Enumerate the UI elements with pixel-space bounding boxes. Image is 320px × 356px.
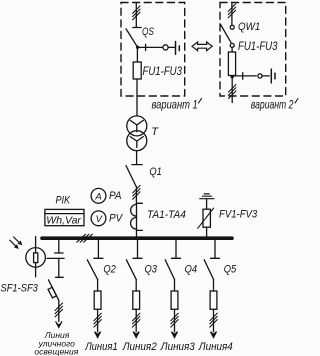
wire: busbar drop to contactor (street lighting) — [58, 240, 60, 253]
ammeter PA — [91, 188, 106, 203]
svg-text:FV1-FV3: FV1-FV3 — [219, 209, 257, 221]
label Линия1 — [84, 341, 117, 353]
voltmeter PV — [91, 211, 106, 226]
fuse FU (line 2) — [133, 291, 140, 309]
label SF1-SF3 — [1, 283, 39, 295]
plug connector X1 (Variant 1) — [163, 42, 179, 55]
label TA1-TA4 — [147, 209, 186, 221]
energy meter Wh,Var — [45, 209, 84, 226]
svg-text:T: T — [151, 126, 159, 138]
wire: Q5 to fuse — [213, 279, 215, 291]
fuse FU (line 4) — [210, 291, 217, 309]
wire: transformer to Q1 — [136, 151, 138, 165]
wire: incoming supply line (Variant 1) — [135, 3, 137, 28]
label Q4 — [185, 264, 198, 276]
label Q2 — [103, 264, 116, 276]
svg-text:TA1-TA4: TA1-TA4 — [147, 209, 186, 221]
wire: Q3 to fuse — [135, 279, 137, 291]
svg-text:Линия1: Линия1 — [84, 341, 117, 353]
feeder line 4 with arrow — [211, 309, 217, 337]
three-phase hatch marks on street lighting feeder — [55, 303, 62, 317]
svg-text:освещения: освещения — [34, 347, 78, 356]
label T — [151, 126, 159, 138]
svg-text:A: A — [94, 191, 101, 202]
busbar 0.4 kV — [42, 236, 232, 240]
svg-text:QS: QS — [142, 26, 154, 38]
svg-text:V: V — [96, 214, 104, 225]
label FV1-FV3 — [219, 209, 257, 221]
svg-text:Линия2: Линия2 — [122, 341, 157, 353]
svg-text:Линия4: Линия4 — [198, 341, 233, 353]
label FU1-FU3 (Variant 1) — [143, 65, 182, 78]
label: вариант 1 — [152, 98, 202, 111]
label Линия2 — [122, 341, 157, 353]
surge arrester FV1-FV3 — [198, 199, 214, 237]
wire: junction to plug connector (Variant 1) — [138, 44, 175, 50]
label Линия3 — [160, 341, 195, 353]
three-phase hatch marks on feeder 3 — [171, 313, 178, 327]
three-phase hatch marks on busbar — [77, 234, 93, 242]
label QS — [142, 26, 154, 38]
svg-text:Wh,Var: Wh,Var — [46, 215, 81, 227]
label Линия4 — [198, 341, 233, 353]
ground symbol above arrester — [200, 194, 214, 199]
label Q5 — [224, 264, 237, 276]
svg-text:Q1: Q1 — [149, 166, 161, 178]
load switch QW1 — [220, 24, 234, 47]
svg-text:Q4: Q4 — [185, 264, 198, 276]
switch Q2 — [87, 240, 103, 280]
three-phase hatch marks on incoming line (Variant 1) — [133, 6, 140, 20]
arrow: street lighting feeder end — [56, 322, 62, 328]
label PV — [109, 213, 123, 225]
label QW1 — [238, 22, 260, 34]
svg-text:FU1-FU3: FU1-FU3 — [238, 40, 277, 53]
fuse FU (line 3) — [171, 291, 178, 309]
label Q3 — [145, 264, 158, 276]
contactor contact KM (street lighting) — [47, 253, 64, 258]
label Q1 — [149, 166, 161, 178]
wire: Q1 to current transformer — [135, 187, 137, 204]
fuse FU1-FU3 (Variant 1) — [133, 62, 141, 79]
wire: incoming supply line (Variant 2) — [231, 2, 233, 25]
alternative-variant double arrow — [192, 42, 212, 51]
svg-text:Q5: Q5 — [224, 264, 237, 276]
current transformer TA1-TA4 — [131, 203, 143, 236]
fuse-switch SA (street lighting) — [48, 277, 63, 300]
wire: outgoing line below junction (Variant 2) — [231, 77, 233, 103]
wire: junction down to fuse (Variant 1) — [136, 47, 138, 62]
switch Q5 — [204, 240, 219, 280]
svg-text:Q3: Q3 — [145, 264, 158, 276]
fuse FU (line 1) — [94, 291, 101, 309]
svg-text:Линия3: Линия3 — [160, 341, 195, 353]
svg-text:SF1-SF3: SF1-SF3 — [1, 283, 39, 295]
switch Q3 — [126, 240, 142, 280]
switch Q4 — [165, 240, 180, 280]
svg-text:QW1: QW1 — [238, 22, 260, 34]
plug connector X1 (Variant 2) — [258, 69, 275, 83]
label PIK — [56, 195, 72, 207]
node: junction below fuse (Variant 2) — [231, 75, 234, 78]
svg-text:PV: PV — [109, 213, 123, 225]
photo relay SF1-SF3 — [26, 237, 46, 277]
svg-text:вариант 2: вариант 2 — [251, 99, 294, 112]
wire: QW1 to fuse (Variant 2) — [231, 47, 233, 52]
three-phase hatch marks below Q1 — [133, 185, 140, 199]
three-phase hatch marks on feeder 2 — [133, 313, 140, 327]
three-phase hatch marks on feeder 4 — [210, 313, 217, 327]
dashed enclosure: Variant 1 box — [121, 3, 185, 97]
feeder line 3 with arrow — [172, 309, 178, 337]
light arrows onto photo relay — [10, 237, 22, 249]
svg-text:Q2: Q2 — [103, 264, 116, 276]
label FU1-FU3 (Variant 2) — [238, 40, 277, 53]
circuit breaker Q1 — [126, 165, 142, 187]
label: Линия уличного освещения — [34, 330, 78, 356]
dashed enclosure: Variant 2 box — [220, 3, 286, 97]
svg-text:PA: PA — [109, 190, 121, 202]
three-phase hatch marks on feeder 1 — [94, 313, 101, 327]
label PA — [109, 190, 121, 202]
svg-text:вариант 1: вариант 1 — [152, 98, 198, 111]
wire: contactor to switch (street lighting) — [58, 258, 60, 277]
wire: Q2 to fuse — [97, 279, 99, 291]
feeder line 2 with arrow — [133, 309, 139, 337]
feeder line 1 with arrow — [95, 309, 101, 337]
node: QS junction (Variant 1) — [136, 46, 139, 49]
label: вариант 2 — [251, 99, 298, 112]
disconnect switch QS — [126, 28, 141, 47]
wire: junction to plug connector (Variant 2) — [232, 73, 269, 80]
transformer T — [127, 116, 147, 151]
wire: fuse to transformer — [136, 79, 138, 116]
fuse FU1-FU3 (Variant 2) — [228, 52, 235, 76]
three-phase hatch marks on outgoing line (Variant 2) — [229, 85, 236, 99]
svg-text:FU1-FU3: FU1-FU3 — [143, 65, 182, 78]
svg-text:PIK: PIK — [56, 195, 72, 207]
three-phase hatch marks on incoming line (Variant 2) — [228, 4, 235, 18]
street lighting feeder line — [58, 301, 60, 322]
wire: Q4 to fuse — [174, 279, 176, 291]
